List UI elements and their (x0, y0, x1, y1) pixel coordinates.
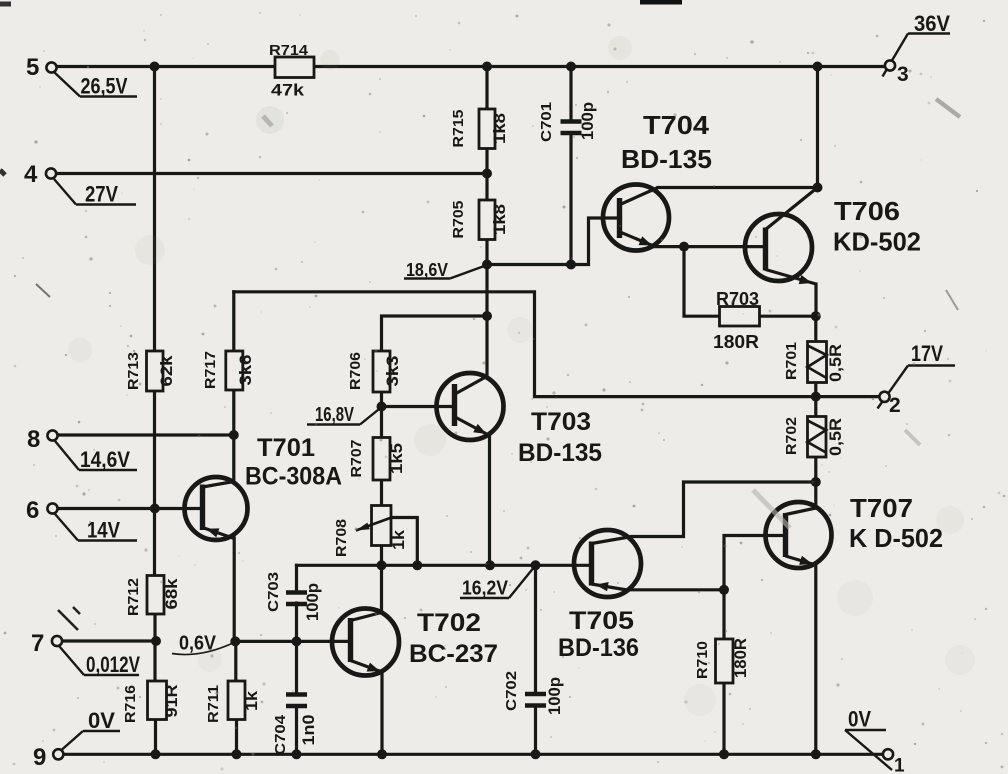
svg-text:K D-502: K D-502 (849, 523, 943, 553)
node T706 emitter / R703 / R701 (811, 311, 821, 321)
node label 18,6V (404, 259, 487, 280)
node terminal 7 / left bus (151, 636, 161, 646)
node ground / R716 (151, 749, 161, 759)
svg-text:T702: T702 (417, 609, 481, 637)
wire R717 bottom to T701 collector (232, 390, 235, 483)
svg-text:R702: R702 (783, 417, 800, 455)
wire R713 bottom through T701 base junction to R712 (153, 391, 156, 576)
svg-text:T707: T707 (850, 493, 913, 523)
svg-text:9: 9 (33, 744, 46, 771)
wire T705 collector path (632, 482, 816, 537)
svg-text:C702: C702 (503, 671, 520, 711)
svg-text:180R: 180R (713, 332, 759, 352)
node 0.6V / T701 emitter / R711 (230, 636, 240, 646)
svg-text:1n0: 1n0 (299, 715, 318, 746)
svg-text:8: 8 (27, 426, 40, 453)
node 17V / terminal 2 (811, 392, 821, 402)
wire T706 emitter down to R703/R701 node (814, 284, 817, 316)
resistor R713 62k (125, 351, 176, 391)
svg-text:BD-135: BD-135 (621, 144, 712, 174)
resistor R701 0,5R (wirewound) (783, 342, 845, 383)
wire down to R703 left lead (684, 247, 720, 317)
wire R712 bottom to R716 top (153, 614, 156, 681)
svg-text:T706: T706 (834, 196, 900, 226)
resistor R716 91R (122, 681, 181, 723)
wire T705 emitter to T707 base junction (627, 588, 724, 591)
node 18.6V (482, 260, 492, 270)
wire 18.6V node down to T703 collector (485, 265, 488, 378)
svg-text:R710: R710 (694, 641, 711, 679)
svg-text:16,8V: 16,8V (315, 404, 354, 426)
svg-text:0,012V: 0,012V (86, 652, 140, 677)
svg-text:R705: R705 (450, 201, 467, 239)
resistor R711 1k (205, 681, 261, 723)
transistor T702 BC-237 (NPN) (332, 609, 498, 676)
terminal 8 (14,6V) (27, 426, 137, 472)
svg-text:27V: 27V (85, 182, 118, 207)
terminal 9 (0V) (33, 708, 120, 771)
wire R711 bottom to ground rail (235, 720, 238, 755)
svg-text:16,2V: 16,2V (462, 578, 509, 600)
svg-text:1k: 1k (389, 529, 408, 550)
wire C704 top lead (295, 641, 298, 693)
wire R715 top lead (485, 67, 488, 110)
svg-text:C701: C701 (538, 102, 555, 142)
svg-text:36V: 36V (914, 11, 950, 36)
resistor R712 68k (125, 576, 181, 617)
resistor R707 1k5 (348, 438, 406, 481)
capacitor C703 100p (265, 572, 322, 621)
svg-text:R712: R712 (125, 578, 142, 616)
wire node (487,316) left and down to R706 top (382, 316, 488, 351)
svg-text:17V: 17V (911, 341, 943, 366)
resistor R702 0,5R (wirewound) (783, 417, 845, 458)
wire ground rail (terminal 9 to terminal 1) (62, 753, 884, 756)
terminal 1 (0V) (845, 707, 905, 774)
svg-text:R717: R717 (202, 351, 219, 389)
transistor T705 BD-136 (PNP) (558, 530, 641, 662)
terminal 5 (26,5V) (26, 54, 137, 99)
wire T707 collector vertical (814, 482, 817, 508)
svg-text:100p: 100p (303, 583, 322, 621)
wire T702 collector to 16.2V rail (380, 565, 383, 612)
wire T704 collector horizontal (658, 186, 818, 189)
node top rail / left bus (150, 62, 160, 72)
svg-text:3k3: 3k3 (383, 356, 402, 387)
node 16.2V / C702 / T705 base (531, 560, 541, 570)
svg-text:1k5: 1k5 (387, 443, 406, 474)
wire T703 emitter down to 16.2V rail (488, 434, 491, 565)
svg-text:0V: 0V (88, 708, 115, 733)
wire T702 emitter to ground rail (380, 672, 383, 755)
node 0.6V / C703 / C704 (292, 636, 302, 646)
transistor T707 KD-502 (NPN) (766, 493, 944, 568)
svg-text:18,6V: 18,6V (406, 259, 449, 280)
wire C704 bottom to ground rail (295, 707, 298, 755)
svg-text:R701: R701 (783, 342, 800, 380)
svg-text:100p: 100p (578, 102, 597, 140)
svg-text:0,5R: 0,5R (826, 418, 845, 456)
wire terminal 7 to bus junction (62, 639, 157, 642)
node T703 base 16.8V (377, 402, 387, 412)
transistor T706 KD-502 (NPN) (745, 188, 921, 285)
node label 16,8V (307, 404, 381, 426)
node R708 / T702 collector (377, 560, 387, 570)
svg-text:BC-308A: BC-308A (245, 463, 342, 491)
wire R701 bottom to 17V node (814, 383, 817, 397)
wire R702 bottom to collector node (814, 457, 817, 482)
wire supply rail down to T704 collector junction (816, 67, 819, 188)
wire R703 right lead (760, 315, 816, 318)
wire R717 top lead (232, 292, 235, 351)
wire C701 bottom to 18.6V wire (569, 135, 572, 265)
resistor R717 3k6 (202, 351, 255, 390)
scan artifacts (decorative) (0, 2, 960, 631)
svg-text:R714: R714 (269, 42, 309, 59)
wire R715 to R705 (485, 149, 488, 201)
wire C702 top lead from 16.2V junction (534, 565, 537, 692)
wire C703 top lead (295, 565, 298, 591)
wire R710 top lead (722, 590, 725, 639)
trimmer R708 1k (333, 506, 408, 558)
svg-text:4: 4 (24, 161, 38, 188)
svg-text:R703: R703 (716, 289, 759, 309)
node top rail / C701 (566, 62, 576, 72)
svg-text:C704: C704 (272, 714, 289, 755)
wire R710 bottom to ground rail (722, 683, 725, 754)
svg-text:T701: T701 (257, 434, 315, 462)
node top rail / right vertical (813, 62, 823, 72)
node T704 emitter / T706 base / R703 (679, 242, 689, 252)
node top rail / R715 (482, 62, 492, 72)
wire C703 bottom to 0.6V wire (295, 603, 298, 641)
svg-text:0V: 0V (848, 707, 871, 732)
wire top supply rail (terminal 5 to terminal 3) (56, 65, 884, 68)
capacitor C704 1n0 (272, 695, 318, 756)
svg-text:1k8: 1k8 (490, 204, 509, 235)
svg-text:3k6: 3k6 (236, 355, 255, 386)
wire terminal 6 to T701 base (57, 507, 203, 510)
wire R708 bottom lead to 16.2V rail (380, 546, 383, 566)
wire R716 bottom to ground rail (154, 720, 157, 755)
node R715/R705 terminal 4 (482, 169, 492, 179)
node ground / C702 (531, 749, 541, 759)
transistor T703 BD-135 (NPN) (437, 373, 603, 467)
svg-text:180R: 180R (731, 638, 750, 678)
svg-text:1k: 1k (242, 690, 261, 711)
svg-text:47k: 47k (271, 81, 305, 100)
wire R708 wiper jog to 16.2V rail (392, 518, 418, 566)
svg-text:KD-502: KD-502 (833, 227, 921, 257)
wire terminal 4 to R715/R705 junction (56, 172, 488, 175)
svg-text:5: 5 (26, 54, 39, 81)
wire R706 bottom to 16.8V junction to R707 top (380, 392, 383, 438)
wire 0.6V horizontal to T702 base (235, 640, 351, 643)
terminal 3 (36V) (883, 11, 951, 86)
node T703 emitter / 16.2V (485, 560, 495, 570)
svg-text:BC-237: BC-237 (409, 640, 498, 668)
resistor R703 180R (713, 289, 760, 352)
svg-text:C703: C703 (265, 572, 282, 612)
wire R711 top lead (234, 641, 237, 681)
svg-text:3: 3 (897, 63, 909, 86)
svg-text:26,5V: 26,5V (81, 74, 128, 99)
svg-text:14V: 14V (87, 518, 120, 543)
transistor T701 BC-308A (PNP) (185, 434, 343, 540)
node R708 wiper (412, 560, 422, 570)
wire R702 top lead (814, 397, 817, 417)
resistor R714 47k (269, 42, 314, 100)
resistor R715 1k8 (450, 109, 509, 149)
svg-text:T705: T705 (569, 607, 634, 635)
node label 0,6V (172, 633, 233, 655)
svg-text:R716: R716 (122, 685, 139, 723)
terminal 2 (17V) (878, 341, 956, 417)
node T704 collector / T706 collector (813, 183, 823, 193)
wire R707 bottom to R708 top (380, 480, 383, 506)
node C701 bottom (566, 260, 576, 270)
svg-text:100p: 100p (545, 677, 564, 715)
node R702 / T705 / T707 collectors (811, 477, 821, 487)
svg-text:91R: 91R (162, 685, 181, 718)
node ground / R711 (232, 749, 242, 759)
wire T707 base and its junction drop (724, 536, 786, 590)
wire left vertical bus x=154 (153, 67, 156, 352)
svg-text:R707: R707 (348, 440, 365, 478)
svg-text:R708: R708 (333, 519, 350, 557)
svg-text:1k8: 1k8 (490, 113, 509, 144)
capacitor C701 100p (538, 102, 597, 142)
node T705 emitter / T707 base / R710 (719, 585, 729, 595)
node ground / T702 emitter (377, 749, 387, 759)
svg-text:6: 6 (26, 497, 39, 524)
wire T707 emitter to ground rail (814, 565, 817, 754)
resistor R710 180R (694, 638, 750, 683)
wire T703 base (382, 405, 455, 408)
node T703 collector / R706 (482, 311, 492, 321)
node ground / C704 (292, 749, 302, 759)
terminal 6 (14V) (26, 497, 137, 543)
svg-text:R711: R711 (205, 685, 222, 723)
svg-text:R706: R706 (347, 352, 364, 390)
terminal 4 (27V) (24, 161, 136, 207)
resistor R705 1k8 (450, 200, 509, 240)
wire 17V bootstrap run (234, 292, 880, 397)
node terminal 6 / T701 base (150, 504, 160, 514)
svg-text:68k: 68k (162, 578, 181, 610)
wire 16.2V horizontal rail (297, 564, 592, 567)
svg-text:62k: 62k (157, 355, 176, 387)
wire C701 top lead (569, 67, 572, 121)
node ground / T707 emitter (811, 749, 821, 759)
svg-text:BD-136: BD-136 (558, 634, 639, 662)
transistor T704 BD-135 (NPN) (603, 110, 712, 251)
svg-text:0,5R: 0,5R (826, 344, 845, 382)
wire C702 bottom to ground rail (534, 706, 537, 755)
node terminal 8 / T701 collector (229, 430, 239, 440)
wire 18.6V node to C701 bottom and T704 base riser (487, 218, 621, 265)
svg-text:7: 7 (31, 630, 44, 657)
capacitor C702 100p (503, 671, 564, 715)
wire T704 emitter / T706 base (655, 245, 766, 248)
wire R701 top lead (814, 316, 817, 341)
wire R705 bottom to 18.6V node (485, 240, 488, 265)
wire T701 emitter down to 0.6V junction (233, 538, 236, 641)
node label 16,2V (460, 566, 535, 600)
svg-text:R715: R715 (450, 110, 467, 148)
terminal 7 (0,012V) (31, 630, 140, 677)
resistor R706 3k3 (347, 351, 402, 392)
svg-text:14,6V: 14,6V (80, 447, 130, 472)
svg-text:1: 1 (894, 756, 905, 774)
node ground / R710 (719, 749, 729, 759)
svg-text:T703: T703 (531, 408, 591, 436)
wire terminal 8 to T701 collector line (57, 433, 234, 436)
